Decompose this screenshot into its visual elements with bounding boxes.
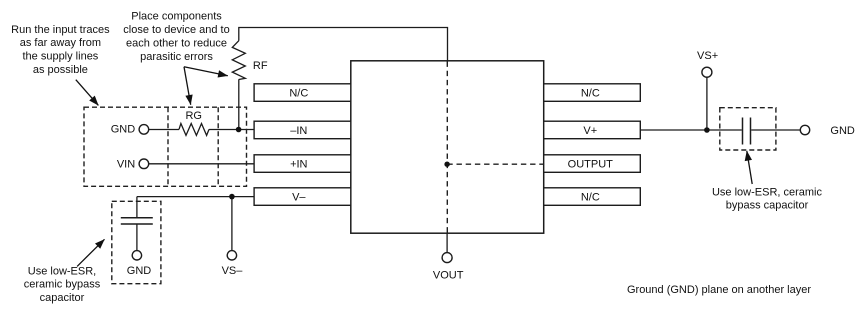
svg-text:the supply lines: the supply lines [22, 51, 98, 63]
svg-text:GND: GND [127, 265, 152, 277]
svg-text:N/C: N/C [581, 192, 600, 204]
svg-text:VIN: VIN [117, 159, 135, 171]
svg-text:Run the input traces: Run the input traces [11, 24, 110, 36]
svg-text:VS–: VS– [222, 265, 244, 277]
svg-text:N/C: N/C [289, 88, 308, 100]
svg-text:RG: RG [185, 110, 202, 122]
svg-text:Place components: Place components [131, 11, 222, 23]
svg-text:capacitor: capacitor [40, 292, 85, 304]
svg-text:V–: V– [292, 192, 306, 204]
svg-text:VOUT: VOUT [433, 269, 464, 281]
svg-text:as possible: as possible [33, 64, 88, 76]
svg-text:as far away from: as far away from [20, 37, 101, 49]
svg-text:VS+: VS+ [697, 50, 718, 62]
svg-text:bypass capacitor: bypass capacitor [726, 200, 809, 212]
svg-text:each other to reduce: each other to reduce [126, 38, 227, 50]
svg-text:–IN: –IN [290, 125, 307, 137]
svg-text:GND: GND [111, 124, 136, 136]
svg-text:GND: GND [830, 125, 855, 137]
svg-text:+IN: +IN [290, 159, 307, 171]
svg-text:RF: RF [253, 60, 268, 72]
svg-text:Ground (GND) plane on another: Ground (GND) plane on another layer [627, 284, 811, 296]
svg-text:Use low-ESR,: Use low-ESR, [28, 266, 96, 278]
svg-text:close to device and to: close to device and to [123, 24, 229, 36]
svg-text:Use low-ESR, ceramic: Use low-ESR, ceramic [712, 187, 823, 199]
svg-text:V+: V+ [583, 125, 597, 137]
svg-text:ceramic bypass: ceramic bypass [24, 279, 101, 291]
svg-text:N/C: N/C [581, 88, 600, 100]
svg-text:OUTPUT: OUTPUT [568, 159, 614, 171]
svg-text:parasitic errors: parasitic errors [140, 51, 213, 63]
